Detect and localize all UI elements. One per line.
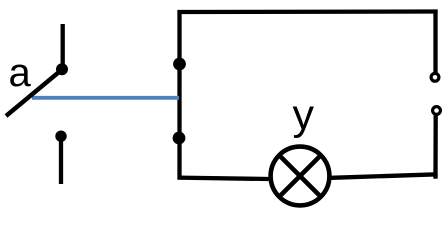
svg-text:y: y — [293, 91, 315, 139]
svg-text:a: a — [9, 51, 32, 95]
